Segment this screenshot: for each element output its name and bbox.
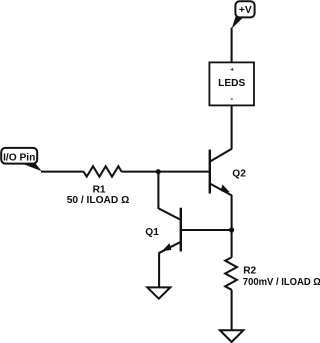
svg-text:700mV / ILOAD Ω: 700mV / ILOAD Ω <box>243 277 320 288</box>
wire I/O Pin to R1 <box>41 171 84 173</box>
wire +V to LEDS <box>231 28 233 64</box>
svg-text:LEDS: LEDS <box>218 78 245 89</box>
net flag +V <box>232 1 255 29</box>
transistor Q1 <box>158 208 180 253</box>
wire LEDS to Q2 collector <box>231 105 233 149</box>
junction node A <box>156 169 161 174</box>
svg-text:Q2: Q2 <box>232 168 246 179</box>
resistor R2 <box>225 257 237 289</box>
wire Q1 emitter to ground <box>158 252 160 287</box>
transistor Q2 <box>210 149 232 196</box>
wire R1 to Q2 base <box>122 171 209 173</box>
svg-text:R1: R1 <box>93 185 106 196</box>
LED load box LEDS <box>209 62 254 105</box>
svg-text:+V: +V <box>239 5 252 16</box>
svg-text:I/O Pin: I/O Pin <box>3 153 35 164</box>
wire node B to R2 <box>231 230 233 258</box>
ground (R2) <box>220 330 244 342</box>
svg-text:50 / ILOAD Ω: 50 / ILOAD Ω <box>67 195 130 206</box>
junction node B <box>229 227 234 232</box>
svg-text:+: + <box>230 67 234 74</box>
wire Q1 collector to node A <box>157 172 159 209</box>
svg-text:-: - <box>230 94 233 103</box>
resistor R1 <box>84 166 122 176</box>
wire R2 to ground <box>231 290 233 330</box>
svg-text:R2: R2 <box>243 266 256 277</box>
svg-text:Q1: Q1 <box>145 227 159 238</box>
net flag I/O Pin <box>1 148 42 171</box>
wire Q2 emitter to node B <box>231 195 233 230</box>
ground (Q1 emitter) <box>147 287 170 298</box>
wire node B to Q1 base <box>181 229 232 231</box>
